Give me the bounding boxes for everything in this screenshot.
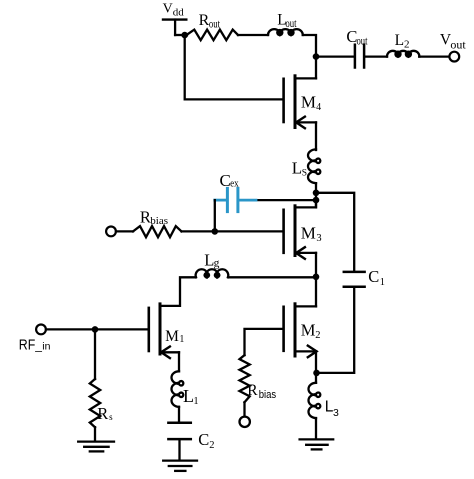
label M2: [301, 321, 321, 341]
wire M2 source to node F: [315, 351, 317, 383]
label M1: [165, 328, 184, 345]
wire Ls to node C: [315, 183, 317, 207]
capacitor C1: [344, 272, 365, 287]
node B junction dot: [313, 53, 320, 60]
svg-text:R: R: [97, 404, 108, 423]
wire Rbias to M3 gate: [182, 230, 283, 232]
svg-text:M: M: [301, 223, 316, 242]
wire Lout to node B: [303, 35, 316, 57]
svg-text:2: 2: [315, 330, 320, 341]
svg-text:R: R: [247, 382, 258, 399]
capacitor Cout: [355, 45, 364, 68]
label Vout: [440, 32, 467, 52]
bias terminal circle (bottom): [240, 417, 250, 427]
wire terminal to Rbias: [116, 230, 133, 232]
ground (under C2): [163, 461, 197, 471]
label Lout: [277, 12, 297, 31]
node G junction dot: [92, 326, 99, 333]
resistor Rbias (top): [133, 226, 182, 237]
svg-text:R: R: [140, 208, 151, 227]
wire C1 to node F: [317, 288, 354, 373]
bias terminal circle (top): [106, 227, 116, 237]
svg-text:L: L: [292, 159, 302, 178]
node D junction dot: [313, 197, 320, 204]
wire Rs to ground: [94, 427, 96, 440]
label Rs: [97, 404, 113, 423]
node F2 junction dot: [313, 274, 320, 281]
capacitor Cex (blue): [215, 188, 256, 211]
svg-text:in: in: [42, 340, 50, 352]
node F junction dot: [313, 370, 320, 377]
svg-text:M: M: [301, 321, 316, 340]
svg-text:dd: dd: [173, 6, 185, 18]
label C1: [368, 267, 385, 288]
label L2: [395, 32, 410, 51]
transistor M4: [284, 76, 316, 128]
svg-text:2: 2: [404, 39, 410, 51]
svg-text:out: out: [357, 34, 368, 48]
svg-text:1: 1: [380, 277, 385, 288]
ground (under Rs): [78, 442, 114, 452]
svg-text:ex: ex: [230, 178, 239, 190]
label Ls: [292, 159, 307, 179]
label C2: [198, 430, 214, 451]
node E junction dot: [212, 228, 219, 235]
svg-text:V: V: [163, 1, 173, 16]
label Rbias (bottom): [247, 382, 276, 401]
wire node G down to Rs: [94, 329, 96, 379]
svg-text:bias: bias: [259, 389, 277, 401]
svg-text:out: out: [209, 17, 221, 31]
Vout terminal circle: [449, 52, 459, 62]
capacitor C2: [168, 423, 190, 439]
label Cex: [220, 171, 240, 190]
svg-text:C: C: [368, 267, 379, 286]
transistor M2: [284, 304, 317, 357]
wire C2 to ground: [178, 440, 180, 459]
wire M1 source to L1: [178, 352, 180, 371]
node A junction dot: [181, 32, 188, 39]
svg-text:bias: bias: [150, 215, 168, 227]
wire node B to Cout: [316, 55, 354, 57]
label M4: [301, 92, 321, 113]
RFin terminal circle: [36, 325, 46, 335]
svg-text:4: 4: [316, 102, 321, 113]
wire node A down and to M4 gate: [185, 35, 283, 99]
inductor Ls: [308, 149, 320, 183]
svg-text:g: g: [214, 258, 220, 270]
wire Rout to Lout: [238, 34, 268, 36]
node C junction dot: [313, 190, 320, 197]
wire Lg to M1 drain: [161, 277, 196, 306]
wire L3 to ground: [315, 418, 317, 438]
wire L1 to C2: [178, 407, 180, 421]
svg-text:2: 2: [209, 440, 214, 451]
svg-text:1: 1: [179, 334, 184, 345]
wire RFin to M1 gate: [46, 328, 148, 330]
wire Rbias2 to terminal: [243, 402, 245, 416]
wire L2 to Vout terminal: [419, 55, 449, 57]
inductor Lg: [196, 269, 229, 277]
wire Cex left plate down to node E: [214, 200, 216, 231]
label L3: [325, 399, 339, 419]
svg-text:RF: RF: [19, 338, 36, 354]
wire M3 source to node F2: [315, 253, 317, 277]
svg-text:1: 1: [193, 396, 198, 407]
label L1: [183, 386, 199, 407]
wire node C to C1: [316, 193, 354, 271]
svg-text:3: 3: [316, 233, 321, 244]
svg-text:M: M: [165, 328, 179, 345]
svg-text:L: L: [183, 386, 194, 406]
resistor Rout: [187, 30, 239, 41]
label Cout: [346, 27, 368, 48]
transistor M3: [284, 200, 316, 259]
wire Cex black segment to node D: [256, 199, 317, 201]
wire M2 gate to Rbias2: [245, 329, 283, 355]
svg-text:S: S: [302, 168, 307, 178]
inductor L3: [309, 383, 321, 418]
inductor L2: [387, 51, 419, 57]
wire node F2 to M2 drain: [315, 277, 317, 307]
label RFin: [19, 338, 51, 354]
inductor L1: [172, 371, 184, 407]
Vdd power symbol: [163, 20, 186, 35]
label Lg: [204, 251, 219, 270]
label Rbias (top): [140, 208, 168, 227]
svg-text:_: _: [34, 339, 42, 353]
wire M4 source to Ls: [315, 122, 317, 150]
svg-text:out: out: [450, 37, 466, 51]
resistor Rs: [90, 379, 100, 427]
ground (under L3): [300, 439, 334, 449]
svg-text:s: s: [109, 412, 113, 422]
wire Vdd bar to node A: [175, 34, 187, 36]
svg-text:L: L: [395, 32, 404, 49]
label Rout: [199, 12, 221, 31]
resistor Rbias (bottom): [240, 355, 250, 402]
label Vdd: [163, 1, 185, 18]
wire node B down to M4 drain: [315, 57, 317, 79]
inductor Lout: [268, 29, 303, 35]
wire node F2 to Lg: [228, 276, 316, 278]
svg-text:out: out: [285, 16, 297, 30]
svg-text:3: 3: [333, 407, 339, 419]
label M3: [301, 223, 322, 244]
svg-text:C: C: [198, 430, 209, 449]
svg-text:M: M: [301, 92, 316, 111]
transistor M1: [149, 304, 179, 358]
wire Cout to L2: [365, 55, 387, 57]
